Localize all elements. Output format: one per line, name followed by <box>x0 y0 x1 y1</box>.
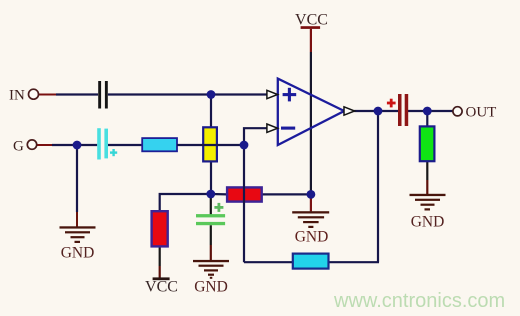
power symbol VCC (bottom) <box>145 277 178 295</box>
wire node C down to left ground <box>76 145 78 227</box>
svg-text:VCC: VCC <box>145 279 178 296</box>
wire resistor R2 to node B <box>210 161 212 194</box>
resistor R2 (yellow vertical) <box>203 127 217 161</box>
resistor R1 (cyan horizontal) <box>142 138 177 151</box>
wire G terminal to node C <box>37 144 98 146</box>
svg-text:GND: GND <box>61 245 95 262</box>
op-amp U1 <box>267 79 355 145</box>
wire node A down to resistor R2 (yellow) <box>210 95 212 129</box>
wire VCC rail through op-amp to ground node <box>310 29 312 195</box>
wire resistor R4 to VCC (bottom) <box>159 247 161 266</box>
resistor R6 (green vertical, output load) <box>420 126 435 161</box>
resistor R3 (cyan, feedback bottom) <box>293 254 329 269</box>
wire capacitor C3 to bottom ground <box>210 225 212 245</box>
wire node B to resistor R5 (red horizontal) <box>211 193 227 196</box>
wire IN terminal to capacitor C1 <box>39 94 99 96</box>
ground GND (center, below op-amp) <box>292 211 329 245</box>
node G2 (output cap junction) <box>423 107 432 116</box>
capacitor C1 (input coupling, black) <box>98 81 108 109</box>
wire node B down to capacitor C3 (green) <box>210 194 212 215</box>
node E (ground junction) <box>307 190 316 199</box>
wire capacitor C1 to op-amp non-inverting input (through node A) <box>108 93 267 95</box>
wire resistor R1 to node D (crosses over R2) <box>177 144 244 146</box>
svg-text:OUT: OUT <box>466 105 497 121</box>
wire node B left to resistor R4 branch <box>160 194 211 211</box>
node A (IN line junction) <box>207 90 216 99</box>
wire capacitor C2 to resistor R1 (cyan) <box>108 144 142 146</box>
terminal OUT <box>453 105 496 121</box>
wire feedback bottom right segment <box>329 261 380 263</box>
wire node D to op-amp inverting input <box>244 128 267 145</box>
power symbol VCC (top) <box>295 11 328 29</box>
resistor R5 (red horizontal, feedback) <box>227 187 262 201</box>
svg-text:www.cntronics.com: www.cntronics.com <box>333 290 505 312</box>
wire capacitor C4 to OUT terminal <box>408 110 453 112</box>
svg-text:GND: GND <box>411 214 445 231</box>
wire feedback bottom left segment <box>244 261 293 263</box>
wire output node down to feedback <box>377 111 379 262</box>
wire node F down to resistor R6 (green) <box>426 111 428 127</box>
resistor R4 (red vertical, to VCC) <box>152 211 168 246</box>
node C (G line junction) <box>73 141 82 150</box>
capacitor C4 (red electrolytic, output) <box>387 94 408 126</box>
svg-text:GND: GND <box>295 229 329 246</box>
ground GND (left) <box>60 226 96 261</box>
svg-text:G: G <box>13 139 24 155</box>
terminal IN <box>9 88 39 104</box>
ground GND (bottom, below C3) <box>193 260 229 296</box>
wire ground node E down to center ground <box>310 194 312 211</box>
svg-text:IN: IN <box>9 88 25 104</box>
node F (output junction) <box>374 107 383 116</box>
capacitor C2 (cyan electrolytic on G line) <box>97 128 117 159</box>
wire op-amp output to capacitor C4 <box>354 110 398 112</box>
wire node D down to feedback (crosses over R5) <box>243 145 245 262</box>
svg-text:VCC: VCC <box>295 11 328 28</box>
node D (inverting input junction) <box>240 141 249 150</box>
wire resistor R6 to right ground <box>426 161 428 180</box>
ground GND (right, below R6) <box>410 194 446 231</box>
terminal G <box>13 139 37 155</box>
wire resistor R5 to ground node E <box>262 193 311 195</box>
capacitor C3 (green electrolytic) <box>196 203 225 225</box>
svg-text:GND: GND <box>194 279 228 296</box>
node B (bias network junction) <box>206 190 215 199</box>
